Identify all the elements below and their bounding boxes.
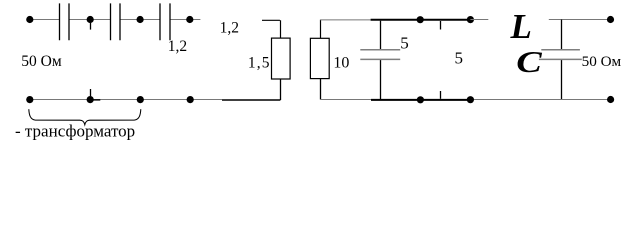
node dot top-left 2 (87, 16, 94, 23)
wire top middle gray (320, 19, 370, 21)
capacitor C5 bottom stem (561, 60, 563, 99)
capacitor C4 top stem (380, 21, 382, 49)
capacitor C3 plates (160, 3, 170, 40)
wire top thick black (371, 19, 471, 21)
node dot top-left 1 (26, 16, 33, 23)
svg-text:1,2: 1,2 (220, 19, 239, 36)
wire resistor R2 top corner (320, 20, 322, 39)
svg-text:10: 10 (333, 55, 349, 72)
svg-text:50 Ом: 50 Ом (21, 53, 62, 70)
wire into resistor R1 top (262, 20, 281, 38)
node dot top-right 2 (467, 16, 474, 23)
wire bottom right gray (470, 99, 610, 101)
svg-text:1,2: 1,2 (168, 38, 187, 55)
node dot bottom-left 3 (137, 96, 144, 103)
wire stub right of top-right dot 2 (470, 19, 488, 21)
node dot top-left 3 (137, 16, 144, 23)
wire bottom black to resistor stem (222, 99, 280, 101)
svg-text:5: 5 (400, 33, 409, 52)
wire top-left segment 2 (69, 19, 111, 21)
tick above bottom dot 2 (90, 89, 92, 96)
tick below top-right wire (440, 21, 442, 30)
capacitor C2 plates (111, 3, 121, 40)
wire bottom thick black (371, 99, 471, 101)
resistor R1 body (272, 38, 291, 79)
wire top right to C (549, 19, 611, 21)
node dot bottom-left 2 (87, 96, 94, 103)
capacitor C5 plates (539, 50, 582, 60)
svg-text:50 Ом: 50 Ом (582, 53, 622, 70)
capacitor C1 plates (60, 3, 70, 40)
capacitor C5 top stem (561, 20, 563, 50)
svg-text:C: C (516, 44, 542, 79)
capacitor C4 plates (360, 50, 400, 60)
svg-text:L: L (510, 7, 532, 46)
wire bottom-left gray (30, 99, 222, 101)
black dash after bottom dot 2 (93, 99, 101, 101)
wire resistor R1 bottom stem (280, 79, 282, 100)
capacitor C4 bottom stem (380, 60, 382, 99)
wire top-left segment 3 (120, 19, 160, 21)
node dot top-right 1 (417, 16, 424, 23)
node dot bottom-left 1 (26, 96, 33, 103)
svg-text:5: 5 (455, 48, 464, 67)
wire bottom middle gray (320, 99, 371, 101)
tick above bottom-right wire (440, 91, 442, 99)
node dot bottom-left 4 (187, 96, 194, 103)
wire top-left segment 1 (30, 19, 60, 21)
node dot top far right (607, 16, 614, 23)
tick below top dot 2 (90, 23, 92, 30)
svg-text:1,5: 1,5 (248, 54, 271, 71)
wire top-left segment 4 (170, 19, 200, 21)
wire resistor R2 bottom stem (320, 79, 322, 100)
node dot bottom far right (607, 96, 614, 103)
node dot bottom-right 1 (417, 96, 424, 103)
svg-text:- трансформатор: - трансформатор (15, 122, 135, 141)
node dot bottom-right 2 (467, 96, 474, 103)
resistor R2 body (310, 38, 329, 78)
transformer brace (29, 109, 141, 125)
node dot top-left 4 (186, 16, 193, 23)
